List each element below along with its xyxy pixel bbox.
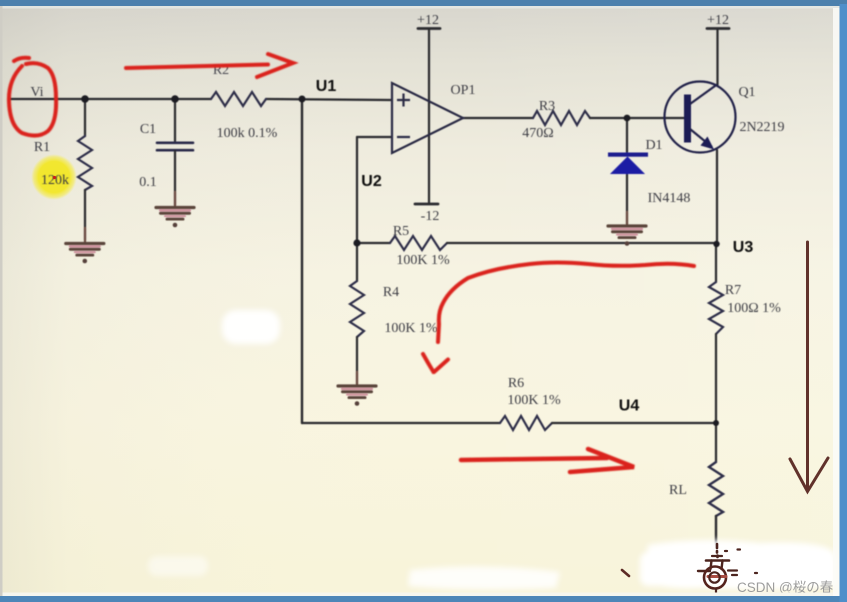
svg-text:U4: U4 (619, 398, 640, 415)
svg-text:470Ω: 470Ω (522, 126, 553, 141)
svg-text:OP1: OP1 (451, 83, 476, 98)
svg-text:RL: RL (669, 483, 687, 498)
svg-text:0.1: 0.1 (139, 175, 157, 190)
svg-text:Q1: Q1 (738, 85, 755, 100)
svg-text:IN4148: IN4148 (648, 191, 691, 206)
svg-text:+12: +12 (707, 13, 729, 28)
svg-text:100K 1%: 100K 1% (384, 321, 438, 336)
svg-text:100k 0.1%: 100k 0.1% (217, 126, 278, 141)
svg-text:U2: U2 (361, 173, 382, 190)
svg-text:Vi: Vi (30, 85, 43, 100)
svg-text:C1: C1 (140, 122, 156, 137)
svg-text:+12: +12 (417, 13, 439, 28)
svg-text:2N2219: 2N2219 (739, 120, 784, 135)
svg-text:100Ω 1%: 100Ω 1% (727, 301, 781, 316)
svg-text:-12: -12 (421, 209, 440, 224)
svg-text:R5: R5 (393, 224, 409, 239)
svg-text:D1: D1 (645, 138, 662, 153)
svg-text:R4: R4 (383, 285, 399, 300)
svg-text:R1: R1 (34, 140, 50, 155)
svg-text:100K 1%: 100K 1% (507, 393, 561, 408)
svg-text:100K 1%: 100K 1% (396, 253, 450, 268)
svg-text:R6: R6 (508, 376, 524, 391)
svg-text:U1: U1 (316, 78, 337, 95)
svg-text:R7: R7 (725, 283, 741, 298)
svg-text:R3: R3 (539, 99, 555, 114)
svg-text:U3: U3 (733, 239, 754, 256)
svg-text:120k: 120k (41, 173, 69, 188)
